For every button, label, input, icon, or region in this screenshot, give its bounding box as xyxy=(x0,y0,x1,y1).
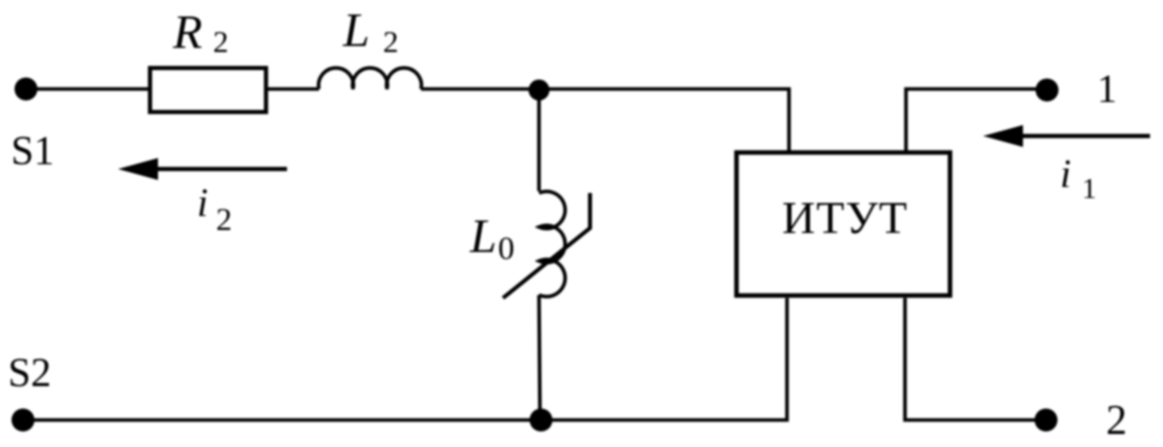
terminal 1 xyxy=(1036,79,1059,102)
svg-text:2: 2 xyxy=(213,24,229,59)
svg-text:2: 2 xyxy=(1106,398,1127,444)
svg-text:L: L xyxy=(469,210,497,263)
svg-text:i: i xyxy=(1060,151,1071,196)
current arrow i2 xyxy=(152,167,287,171)
svg-text:i: i xyxy=(197,180,208,225)
terminal S2 xyxy=(12,409,35,432)
inductor L2 xyxy=(319,68,422,89)
wire xyxy=(23,298,787,420)
svg-text:2: 2 xyxy=(216,201,232,237)
inductor L0 xyxy=(539,191,565,296)
wire xyxy=(539,295,540,420)
wire xyxy=(26,87,148,91)
wire xyxy=(905,298,1046,420)
wire xyxy=(537,90,541,191)
svg-text:2: 2 xyxy=(383,24,399,59)
terminal S1 xyxy=(15,78,38,101)
svg-text:1: 1 xyxy=(1097,66,1117,111)
svg-text:L: L xyxy=(342,4,370,57)
svg-text:ИТУТ: ИТУТ xyxy=(782,192,908,243)
svg-text:0: 0 xyxy=(498,231,515,267)
svg-text:1: 1 xyxy=(1082,173,1097,205)
current arrow i1 xyxy=(1018,134,1150,138)
block U1 ИТУТ xyxy=(737,153,951,296)
wire xyxy=(268,87,319,91)
node B xyxy=(530,409,553,432)
arrow (variable inductor stroke) xyxy=(503,193,590,298)
wire xyxy=(906,89,1047,151)
svg-text:R: R xyxy=(172,6,202,59)
resistor R2 xyxy=(150,68,266,112)
wire xyxy=(421,89,789,151)
svg-text:S2: S2 xyxy=(8,349,51,395)
terminal 2 xyxy=(1035,409,1058,432)
node A xyxy=(529,80,550,101)
svg-text:S1: S1 xyxy=(11,127,54,173)
